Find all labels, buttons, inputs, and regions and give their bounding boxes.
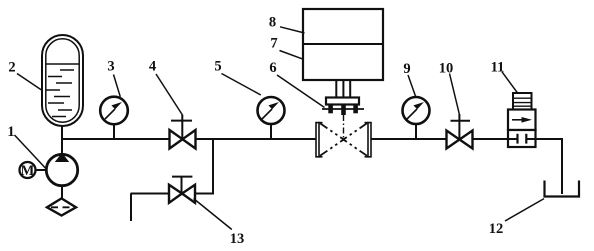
leader line 9 [408, 75, 416, 97]
flow element left flange bottom tick [316, 156, 323, 158]
actuator stem line right [349, 80, 351, 98]
wire gauge5 stem [270, 124, 272, 140]
leader line 12 [505, 199, 544, 221]
svg-text:7: 7 [270, 36, 277, 52]
leader line 1 [15, 135, 46, 169]
accumulator 2 outer shell [42, 35, 83, 126]
valve 13 handle bar [172, 176, 192, 178]
leader line 11 [502, 72, 518, 93]
svg-text:M: M [21, 163, 35, 179]
flow element centerline dash-dot [343, 115, 345, 140]
flow element right flange top tick [365, 122, 372, 124]
flow element diagonal top-right [344, 123, 368, 139]
leader line 3 [114, 75, 121, 97]
valve 10 handle bar [451, 120, 471, 122]
wire branch vertical to drain line [212, 139, 214, 194]
regulator 11 arrow [512, 119, 524, 121]
leader line 8 [280, 27, 305, 33]
flange 6 bolt right [353, 105, 358, 114]
gauge 5 circle [258, 97, 285, 124]
regulator 11 lower box [508, 130, 536, 147]
flange 6 bolt left [328, 105, 333, 114]
svg-text:4: 4 [149, 59, 156, 75]
flow element left flange inner line [318, 122, 320, 158]
actuator box 7 8 [303, 9, 383, 80]
wire motor to pump [36, 169, 47, 171]
wire main line valve10 to regulator11 [473, 138, 509, 140]
valve 13 left triangle [169, 185, 182, 203]
wire pump bottom stem [61, 186, 63, 200]
wire accumulator stem [61, 125, 63, 139]
flow element diagonal top-left [320, 123, 344, 139]
leader line 13 [194, 199, 232, 230]
valve 10 left triangle [447, 131, 460, 149]
regulator 11 inner line left [509, 138, 518, 140]
wire main line regulator11 to corner [536, 138, 563, 140]
gauge 3 circle [100, 97, 128, 125]
tank 12 [545, 181, 580, 197]
leader line 10 [450, 74, 460, 115]
flow element right flange bottom tick [365, 156, 372, 158]
regulator 11 knob stripes [513, 98, 532, 106]
flow element right flange outer line [370, 122, 372, 158]
svg-text:12: 12 [489, 221, 504, 237]
flow element left flange outer line [315, 122, 317, 158]
wire drain line right segment [196, 193, 215, 195]
actuator stem line left [335, 80, 337, 98]
pump 1 triangle [55, 153, 69, 162]
regulator 11 right post [525, 134, 527, 144]
valve 10 right triangle [460, 131, 473, 149]
svg-text:2: 2 [8, 60, 15, 76]
wire main line left segment [61, 138, 170, 140]
svg-text:5: 5 [214, 59, 221, 75]
svg-text:3: 3 [107, 59, 114, 75]
wire main line valve4 to left flange [196, 138, 317, 140]
wire drain line left segment [131, 193, 170, 195]
valve 13 right triangle [182, 185, 195, 203]
flange 6 bolt row line [322, 108, 364, 110]
valve 4 right triangle [183, 130, 196, 149]
regulator 11 inner line right [526, 138, 535, 140]
wire main line right flange to valve10 [371, 138, 447, 140]
leader line 2 [17, 74, 42, 91]
gauge 9 circle [403, 97, 430, 124]
regulator 11 knob [513, 93, 532, 110]
svg-text:6: 6 [269, 60, 276, 76]
svg-text:10: 10 [439, 61, 454, 77]
leader line 5 [222, 74, 261, 96]
flange 6 plate [326, 98, 359, 105]
leader line 7 [280, 51, 304, 60]
flow element right flange inner line [367, 122, 369, 158]
accumulator 2 inner shell [46, 39, 79, 122]
regulator 11 left post [516, 134, 518, 144]
valve 10 stem [458, 114, 460, 140]
wire drain outlet down [130, 194, 132, 222]
accumulator liquid dashes [46, 70, 75, 117]
valve 13 stem [181, 177, 183, 194]
leader line 6 [277, 75, 325, 108]
regulator 11 upper box [508, 110, 536, 131]
valve 4 stem [181, 115, 183, 140]
filter dashed line [51, 206, 73, 208]
flow element diagonal bottom-left [320, 140, 344, 156]
wire pump top stem [61, 139, 63, 155]
filter diamond [47, 198, 76, 215]
wire gauge9 stem [415, 124, 417, 140]
accumulator liquid level line [46, 63, 79, 65]
wire down pipe into tank [561, 138, 563, 194]
svg-text:9: 9 [403, 61, 410, 77]
actuator box divider [303, 43, 383, 45]
gauge 3 needle [105, 109, 115, 119]
gauge 5 needle [262, 109, 272, 119]
flow element left flange top tick [316, 122, 323, 124]
svg-text:1: 1 [7, 124, 14, 140]
svg-text:11: 11 [491, 60, 505, 76]
flow element diagonal bottom-right [344, 140, 368, 156]
pump 1 circle [46, 154, 77, 185]
valve 4 handle bar [171, 120, 192, 122]
svg-text:8: 8 [269, 14, 276, 30]
flange 6 bolt middle [341, 105, 346, 116]
motor M circle [20, 162, 36, 178]
wire gauge3 stem [113, 124, 115, 139]
actuator stem line middle [342, 80, 344, 98]
gauge 9 needle [407, 109, 417, 119]
leader line 4 [156, 74, 182, 115]
valve 4 left triangle [170, 130, 183, 149]
svg-text:13: 13 [230, 231, 245, 247]
